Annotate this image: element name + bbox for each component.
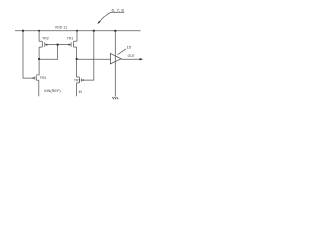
leader line to label 15 xyxy=(118,49,126,55)
svg-text:TR4: TR4 xyxy=(40,76,47,80)
node: gate bus junction dot xyxy=(56,44,58,46)
transistor TR3 xyxy=(77,77,84,83)
ground xyxy=(112,97,118,99)
node A: mirror input node dot xyxy=(38,58,40,60)
svg-text:IN: IN xyxy=(79,90,83,94)
node B: amplifier input node dot xyxy=(76,58,78,60)
wire: TR1 drain drop from rail xyxy=(76,31,78,41)
node: rail junction at TR3 gate column xyxy=(93,30,95,32)
wire: input net from node B to buffer 15 xyxy=(77,58,111,60)
wire: diode tie from gate bus down to mirror node xyxy=(39,45,58,60)
wire: TR3 source lead to IN terminal xyxy=(76,83,78,96)
op-amp buffer U15 triangle xyxy=(110,53,121,64)
leader arrow from pins 6,7,8 xyxy=(100,12,112,22)
node: rail junction at buffer supply column xyxy=(114,30,116,32)
wire: TR1 source drop to output node and TR3 drain riser xyxy=(77,47,80,77)
svg-text:VDD 11: VDD 11 xyxy=(55,25,67,29)
wire: buffer supply column from rail through buffer to ground xyxy=(114,31,116,97)
transistor TR2 xyxy=(39,41,47,47)
transistor TR4 xyxy=(33,75,39,80)
wire: TR4 source lead to XIN terminal xyxy=(38,80,40,96)
svg-text:TR3: TR3 xyxy=(74,78,81,82)
node: rail junction at TR1 drain xyxy=(76,30,78,32)
wire: gate bus between TR2 and TR1 xyxy=(47,44,69,46)
wire: TR2 drain drop xyxy=(39,31,42,41)
svg-text:XIN(REF): XIN(REF) xyxy=(44,89,61,93)
node: rail junction left xyxy=(22,30,24,32)
svg-text:TR2: TR2 xyxy=(42,37,49,41)
svg-text:TR1: TR1 xyxy=(67,37,74,41)
transistor TR1 xyxy=(69,41,77,47)
wire: TR2 source drop to mirror node and TR4 drain riser xyxy=(38,47,40,75)
node: rail junction at TR2 drain xyxy=(38,30,40,32)
wire: TR3 gate tie up to VDD rail xyxy=(84,31,94,80)
svg-text:15: 15 xyxy=(127,45,132,50)
wire: VDD supply rail xyxy=(15,30,141,32)
svg-text:OUT: OUT xyxy=(128,54,135,58)
wire: left drop from rail to TR4 gate xyxy=(23,31,33,78)
wire: output line with arrowhead xyxy=(121,58,140,60)
